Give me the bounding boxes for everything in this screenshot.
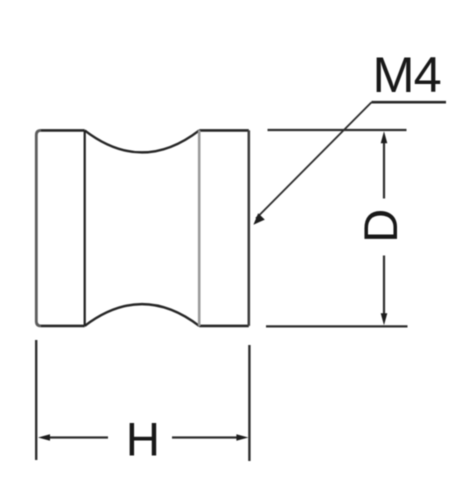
M4 leader shoulder line [372, 101, 447, 104]
H dimension line left segment [47, 436, 108, 438]
H dimension left arrowhead [38, 434, 50, 441]
left flange bottom edge [41, 325, 85, 328]
D dimension upper arrowhead [381, 131, 388, 143]
D dimension line upper segment [383, 141, 385, 199]
H dimension right extension line [248, 345, 250, 461]
D dimension lower arrowhead [381, 313, 388, 325]
bottom concave waist arc [85, 304, 200, 326]
D dimension bottom extension line [266, 325, 408, 327]
svg-text:H: H [126, 414, 160, 467]
svg-text:D: D [354, 209, 407, 243]
left flange top edge [41, 129, 85, 132]
left flange inner edge [84, 130, 86, 326]
H dimension line right segment [172, 436, 240, 438]
M4 leader arrowhead [253, 213, 264, 225]
H dimension left extension line [35, 340, 37, 460]
D dimension top extension line [268, 129, 407, 131]
D dimension line lower segment [383, 256, 385, 317]
right flange bottom edge [199, 325, 249, 328]
spool body outline (top edges, arcs, bottom edges) [41, 130, 249, 326]
svg-text:M4: M4 [373, 46, 441, 103]
top concave waist arc [85, 130, 200, 152]
M4 leader diagonal line [256, 102, 372, 218]
right flange outer edge [248, 130, 251, 326]
right flange inner edge [198, 130, 201, 326]
right flange top edge [199, 129, 249, 132]
left flange outer edge with rounded corners [36, 130, 41, 326]
H dimension right arrowhead [236, 434, 248, 441]
